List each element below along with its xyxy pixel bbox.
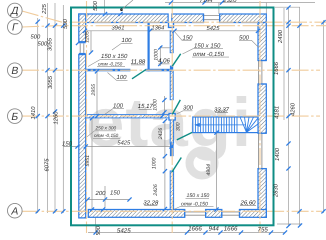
svg-text:4,06: 4,06 [158, 58, 170, 65]
top wall mid segment [172, 14, 204, 23]
room area labels [131, 58, 256, 207]
left wall lower [79, 55, 86, 218]
staircase steps [195, 117, 258, 133]
left wall upper [79, 14, 86, 42]
svg-text:100: 100 [113, 102, 124, 109]
svg-text:3055: 3055 [47, 75, 54, 89]
door leaf P3 upper [177, 132, 192, 140]
svg-text:2426: 2426 [158, 128, 164, 141]
teal outline rect [71, 8, 274, 226]
svg-text:1000: 1000 [152, 158, 158, 170]
svg-text:5425: 5425 [207, 25, 221, 32]
svg-text:2426: 2426 [153, 184, 159, 197]
svg-text:7144: 7144 [200, 0, 213, 4]
stair direction arrow [195, 124, 246, 126]
interior wall H1 left [86, 69, 131, 72]
partition P3 lower [170, 171, 173, 210]
staircase winders fan [233, 117, 235, 133]
axis circle Д [8, 3, 23, 218]
axis 3 vertical [259, 1, 261, 233]
partition P1 [148, 23, 150, 72]
svg-text:500: 500 [92, 0, 99, 10]
svg-text:200: 200 [95, 190, 107, 197]
svg-text:300: 300 [175, 122, 181, 131]
svg-text:1260: 1260 [53, 111, 60, 125]
top wall left segment [79, 14, 168, 23]
interior wall H1 right [146, 69, 174, 72]
axis Б horizontal [22, 115, 320, 117]
svg-text:100: 100 [117, 74, 128, 81]
right window2 glazing [258, 133, 260, 168]
door leaf H1 [132, 70, 146, 79]
right wall lower [258, 169, 266, 218]
svg-text:150: 150 [62, 141, 73, 148]
axis Г horizontal [22, 26, 326, 27]
axis 1 vertical [86, 1, 88, 233]
svg-text:150 x 150: 150 x 150 [187, 193, 210, 199]
black dot leader [120, 8, 123, 11]
svg-text:3961: 3961 [112, 25, 125, 32]
bottom window1 glazing [185, 211, 206, 213]
axis circle А [8, 203, 23, 218]
top wall right segment [220, 14, 267, 23]
leader labels [113, 35, 250, 112]
door leaf P2 [172, 100, 180, 114]
svg-text:1400: 1400 [274, 147, 281, 161]
texts interior dims [62, 24, 220, 197]
svg-text:500: 500 [95, 225, 102, 235]
axis circle Г [8, 20, 23, 35]
interior dimension lines [63, 31, 258, 210]
svg-text:1666: 1666 [188, 226, 202, 233]
svg-text:150: 150 [110, 189, 121, 196]
svg-text:6075: 6075 [44, 158, 51, 172]
partition P2 lower [170, 71, 173, 99]
door leaf bath [132, 54, 192, 172]
svg-text:5951: 5951 [85, 155, 91, 167]
right wall upper [258, 23, 266, 61]
bottom wall left segment [88, 210, 184, 218]
svg-text:2490: 2490 [277, 29, 284, 44]
right window1 glazing [258, 61, 260, 85]
bottom wall mid segment [206, 210, 222, 218]
svg-text:5425: 5425 [117, 227, 131, 234]
svg-text:1410: 1410 [30, 106, 37, 120]
svg-text:225: 225 [41, 3, 48, 14]
right wall mid [258, 84, 266, 133]
partition P2 block [170, 66, 173, 72]
svg-text:500: 500 [62, 18, 69, 28]
svg-text:4181: 4181 [274, 106, 281, 119]
svg-text:1666: 1666 [273, 61, 280, 75]
svg-text:1364: 1364 [151, 24, 164, 31]
svg-text:100: 100 [122, 37, 133, 44]
svg-text:26,60: 26,60 [239, 199, 256, 206]
svg-text:В: В [11, 66, 18, 77]
svg-text:Б: Б [11, 112, 18, 123]
top window glazing [80, 16, 262, 216]
axis circle В [8, 63, 23, 78]
svg-text:150 x 150: 150 x 150 [101, 53, 128, 60]
svg-text:4260: 4260 [290, 102, 297, 116]
door leaf P3 lower [172, 158, 181, 173]
watermark g loop [190, 151, 215, 176]
svg-text:отм -0,150: отм -0,150 [98, 61, 123, 66]
svg-text:А: А [10, 206, 18, 217]
svg-text:1666: 1666 [224, 226, 238, 233]
svg-text:3055: 3055 [47, 37, 54, 51]
svg-text:500: 500 [38, 41, 48, 48]
partition P3 upper [170, 120, 173, 143]
axis circle Б [8, 109, 23, 124]
interior wall H2 [86, 115, 169, 118]
column at H2 end [169, 114, 175, 121]
svg-text:2955: 2955 [91, 84, 97, 97]
bottom window2 glazing [222, 211, 240, 213]
svg-text:500: 500 [31, 34, 41, 41]
svg-text:11,88: 11,88 [131, 59, 146, 66]
axis 2 vertical [171, 1, 173, 233]
svg-text:755: 755 [258, 226, 269, 233]
svg-text:1000: 1000 [153, 99, 159, 111]
svg-text:5425: 5425 [117, 139, 131, 146]
svg-text:Д: Д [10, 6, 19, 17]
duct U in top wall [169, 23, 174, 28]
window caps blue [79, 14, 266, 217]
svg-text:944: 944 [209, 226, 220, 233]
note 150x150 left [94, 42, 225, 207]
svg-text:4904: 4904 [206, 164, 212, 176]
svg-text:2830: 2830 [273, 183, 280, 198]
svg-text:250 x 300: 250 x 300 [95, 125, 117, 130]
bottom wall right segment [240, 210, 267, 218]
svg-text:1205: 1205 [85, 31, 91, 43]
svg-text:2320: 2320 [223, 0, 238, 4]
svg-text:отм -0,150: отм -0,150 [94, 133, 119, 138]
staircase box [193, 117, 258, 133]
svg-text:300: 300 [183, 105, 194, 112]
axis В horizontal [22, 69, 320, 71]
svg-text:150 x 150: 150 x 150 [194, 42, 221, 49]
left window glazing [79, 44, 81, 53]
partition P3 block [170, 143, 174, 156]
axis А horizontal [22, 210, 322, 212]
partition P2 upper [170, 31, 173, 53]
